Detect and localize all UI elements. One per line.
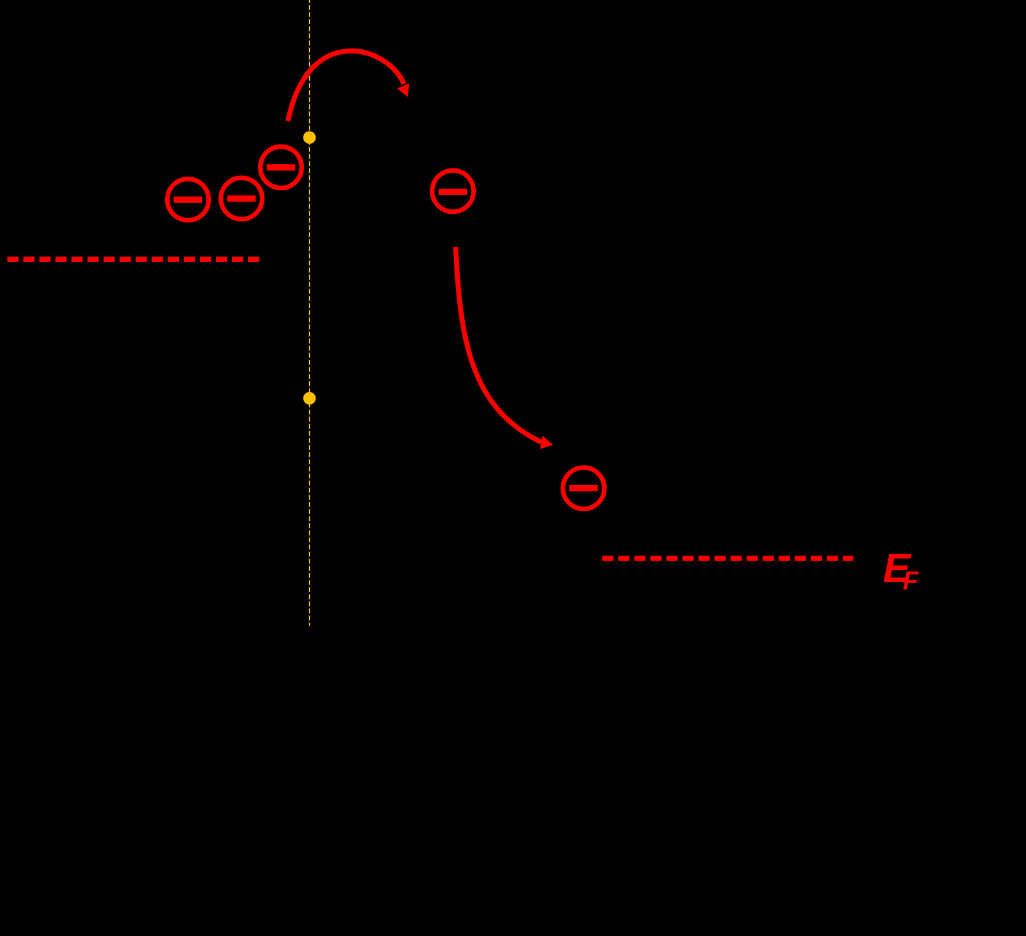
Fermi level dashed line (red, right) bbox=[602, 556, 853, 561]
electron e2 bbox=[221, 178, 262, 219]
electron e1 bbox=[167, 179, 208, 220]
node dot lower (gold) bbox=[303, 392, 316, 405]
hop arrow over barrier (red arc) bbox=[288, 51, 404, 121]
node dot upper (gold) bbox=[303, 131, 316, 144]
interface dashed line (gold, vertical) bbox=[309, 0, 311, 626]
relax arrow (red arc down-right) bbox=[456, 247, 542, 442]
relax arrow head bbox=[540, 436, 553, 450]
donor level dashed line (red, left) bbox=[7, 257, 259, 262]
electron e4 bbox=[432, 170, 473, 211]
svg-text:F: F bbox=[903, 568, 920, 596]
electron e3 bbox=[260, 147, 301, 188]
electron e5 bbox=[563, 468, 604, 509]
hop arrow head bbox=[397, 83, 409, 97]
